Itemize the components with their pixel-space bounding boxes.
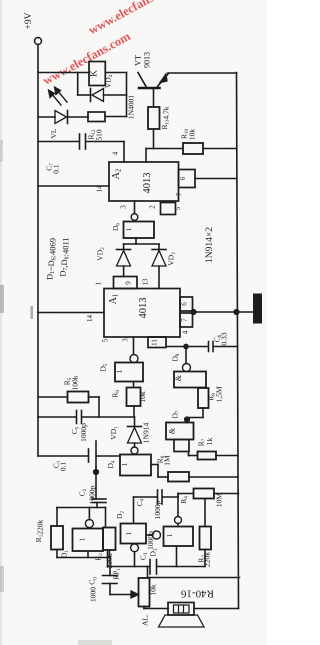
svg-text:1: 1 xyxy=(121,462,129,466)
svg-text:1000p: 1000p xyxy=(79,423,88,442)
svg-text:1k: 1k xyxy=(205,438,214,446)
svg-text:13: 13 xyxy=(142,278,150,286)
svg-text:1: 1 xyxy=(95,281,103,285)
svg-text:14: 14 xyxy=(86,315,94,323)
svg-text:510: 510 xyxy=(95,129,104,141)
svg-text:10M: 10M xyxy=(215,493,224,508)
svg-text:+9V: +9V xyxy=(24,12,34,29)
svg-text:VL: VL xyxy=(49,128,58,138)
svg-text:2: 2 xyxy=(149,205,157,209)
svg-text:7: 7 xyxy=(181,318,189,322)
svg-text:K: K xyxy=(89,70,99,77)
svg-text:6: 6 xyxy=(181,302,189,306)
svg-text:4013: 4013 xyxy=(138,298,149,319)
svg-text:9: 9 xyxy=(125,281,133,285)
svg-text:1: 1 xyxy=(125,531,133,535)
svg-text:1000p: 1000p xyxy=(88,485,97,504)
svg-text:&: & xyxy=(174,374,183,381)
svg-text:100k: 100k xyxy=(71,375,80,390)
svg-text:4013: 4013 xyxy=(142,173,153,194)
svg-text:1N4001: 1N4001 xyxy=(127,95,136,119)
svg-text:1N914: 1N914 xyxy=(142,423,151,444)
svg-text:6: 6 xyxy=(179,176,187,180)
svg-text:1M: 1M xyxy=(163,455,172,466)
svg-text:220k: 220k xyxy=(203,552,212,567)
svg-text:7: 7 xyxy=(176,192,184,196)
svg-text:11: 11 xyxy=(151,339,159,346)
svg-text:0.1: 0.1 xyxy=(59,462,68,472)
svg-text:4: 4 xyxy=(182,330,190,334)
svg-text:10k: 10k xyxy=(149,584,158,596)
svg-text:VT: VT xyxy=(134,55,143,66)
svg-text:3: 3 xyxy=(122,338,130,342)
svg-text:1N914×2: 1N914×2 xyxy=(205,227,215,263)
svg-text:1: 1 xyxy=(116,369,124,373)
svg-text:1,5M: 1,5M xyxy=(215,386,224,402)
svg-text:3: 3 xyxy=(120,205,128,209)
svg-text:14: 14 xyxy=(96,185,104,193)
svg-text:0.1: 0.1 xyxy=(52,164,61,174)
svg-text:AL.: AL. xyxy=(141,614,150,626)
svg-text:10k: 10k xyxy=(138,391,147,403)
svg-text:1000: 1000 xyxy=(89,587,98,602)
svg-text:R40-16: R40-16 xyxy=(181,588,215,600)
svg-text:1: 1 xyxy=(79,537,87,541)
svg-text:1: 1 xyxy=(166,533,174,537)
svg-text:5: 5 xyxy=(102,338,110,342)
svg-text:5: 5 xyxy=(174,206,182,210)
svg-text:220k: 220k xyxy=(105,553,114,568)
svg-text:4: 4 xyxy=(112,151,120,155)
svg-text:9013: 9013 xyxy=(143,52,152,68)
svg-text:1: 1 xyxy=(125,227,133,231)
svg-text:0.33: 0.33 xyxy=(220,332,229,345)
svg-text:1000p: 1000p xyxy=(153,500,162,519)
svg-text:1000p: 1000p xyxy=(146,531,155,550)
svg-text:&: & xyxy=(168,427,177,434)
svg-text:10k: 10k xyxy=(188,129,197,141)
